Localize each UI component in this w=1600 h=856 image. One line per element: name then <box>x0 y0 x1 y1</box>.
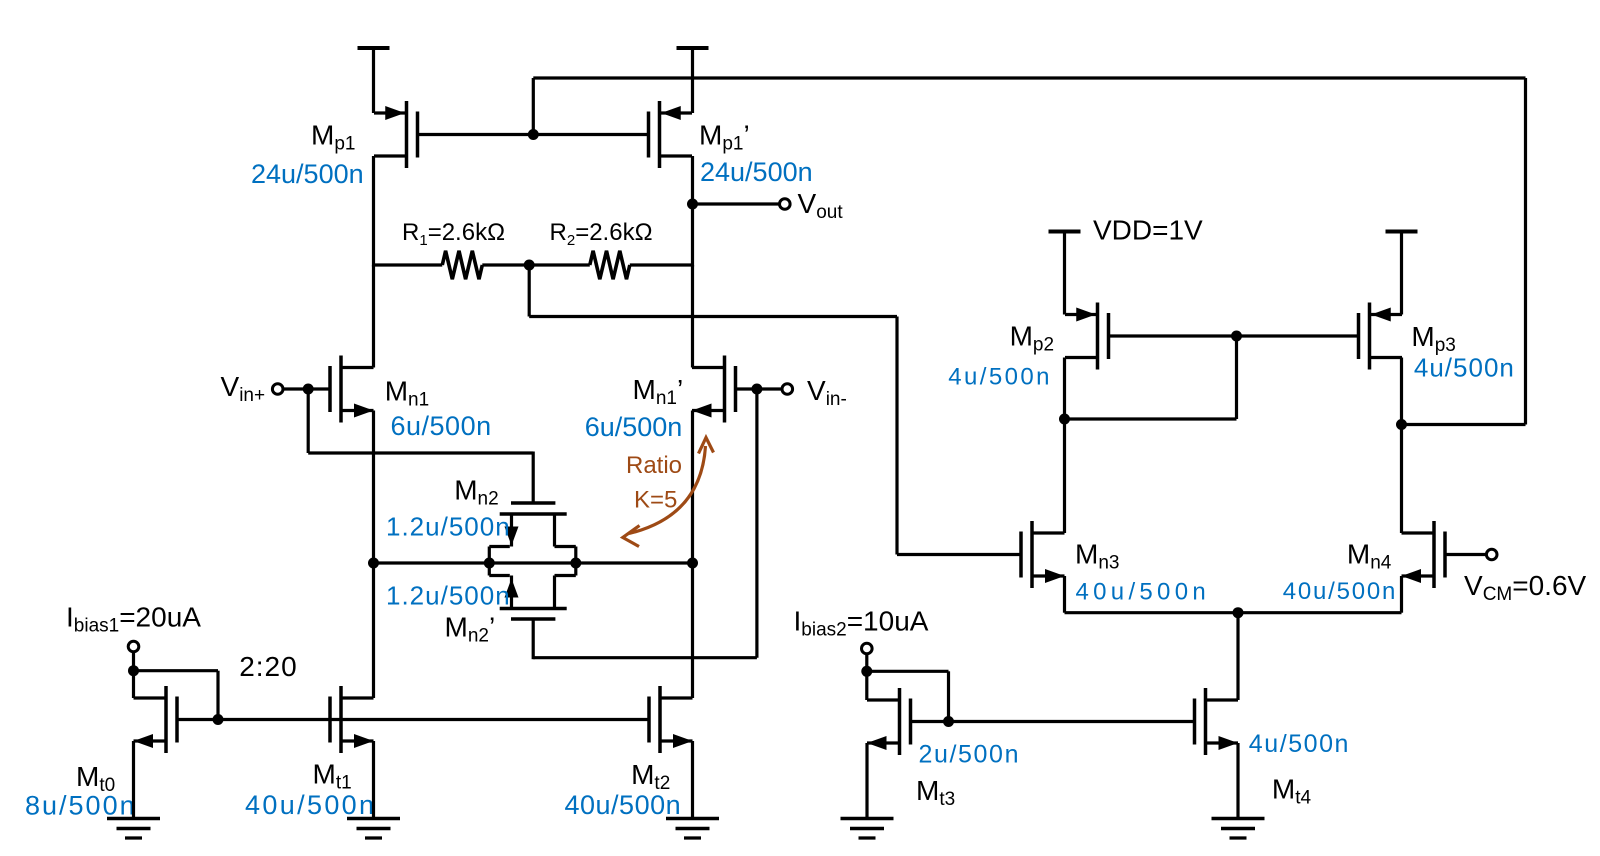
svg-text:4u/500n: 4u/500n <box>948 364 1052 391</box>
transistor Mn4 (NMOS CMFB reference, gate right) <box>1402 521 1446 588</box>
svg-text:24u/500n: 24u/500n <box>251 159 364 189</box>
svg-text:6u/500n: 6u/500n <box>391 411 492 441</box>
transistor Mt1 (NMOS tail, gate left) <box>330 686 374 753</box>
label R2 value <box>550 219 653 249</box>
label VCM=0.6V <box>1464 570 1587 605</box>
label Mn3 <box>1075 538 1119 573</box>
svg-text:1.2u/500n: 1.2u/500n <box>386 512 511 542</box>
label Mt1 size 40u/500n <box>245 790 376 820</box>
node Mp3 drain junction dot <box>1396 419 1407 430</box>
label Mt0 <box>76 761 115 796</box>
wire Mt0 gate feed drop <box>216 671 219 720</box>
wire Mp1p drain column to Vout and resistor row <box>691 156 694 267</box>
svg-text:40u/500n: 40u/500n <box>245 790 376 820</box>
label Mt4 <box>1272 774 1312 809</box>
label Mt4 size 4u/500n <box>1249 730 1350 758</box>
power VDD symbol above Mp2 <box>1049 232 1081 315</box>
wire gate-bias bottom run to Mp3 drain <box>1402 423 1526 426</box>
power VDD symbol above Mp1 <box>358 48 390 113</box>
label Mn4 size 40u/500n <box>1283 578 1398 605</box>
wire gate-bias right drop <box>1524 78 1527 425</box>
node Vout junction dot <box>687 199 698 210</box>
node Ibias1 junction dot <box>128 665 139 676</box>
label Mp1 size 24u/500n <box>251 159 364 189</box>
wire Vin+ lead <box>283 387 330 390</box>
wire Mt1 source to ground <box>372 741 375 819</box>
label Mp3 size 4u/500n <box>1414 352 1515 382</box>
label Vin- <box>807 375 847 410</box>
label Ibias1 <box>66 602 201 637</box>
wire Vout stub <box>693 202 780 205</box>
wire Vin+ gate drop <box>307 389 310 453</box>
svg-text:6u/500n: 6u/500n <box>585 412 683 442</box>
node left branch source dot <box>368 558 379 569</box>
label Mt3 <box>916 775 955 810</box>
wire Mp2 drain column <box>1063 358 1066 534</box>
terminal Vin+ open circle <box>272 384 283 395</box>
svg-text:K=5: K=5 <box>634 487 677 514</box>
svg-text:VCM=0.6V: VCM=0.6V <box>1464 570 1587 605</box>
svg-text:40u/500n: 40u/500n <box>565 790 682 820</box>
label Mp2 <box>1010 321 1054 356</box>
node CMFB tail dot <box>1233 607 1244 618</box>
wire Mn4 gate lead <box>1447 553 1487 556</box>
wire CM-sense drop from resistor midpoint <box>528 265 531 317</box>
label Mn4 <box>1347 539 1392 574</box>
label Mt0 size 8u/500n <box>25 791 137 821</box>
wire Mt4 source to ground <box>1236 743 1239 819</box>
transistor Mp1-prime (PMOS current source, gate left) <box>649 101 693 168</box>
node Mt3 gate junction dot <box>943 716 954 727</box>
svg-text:R2=2.6kΩ: R2=2.6kΩ <box>550 219 653 249</box>
wire Vin- gate drop <box>755 389 758 658</box>
label Mp2 size 4u/500n <box>948 364 1052 391</box>
label Vin+ <box>221 371 266 406</box>
node Vin+ junction dot <box>303 384 314 395</box>
wire Mt3 source to ground <box>865 743 868 819</box>
svg-text:1.2u/500n: 1.2u/500n <box>386 581 511 611</box>
label Mp3 <box>1411 321 1455 356</box>
transistor Mt4 (NMOS tail, gate left) <box>1195 688 1239 755</box>
ground below Mt3 <box>841 819 894 839</box>
wire resistor row left segment <box>374 263 443 266</box>
label 2:20 mirror ratio <box>239 651 298 682</box>
annotation ratio curved arrow <box>623 438 714 547</box>
svg-text:4u/500n: 4u/500n <box>1249 730 1350 758</box>
wire gate bus Mt0-Mt1-Mt2 <box>177 718 649 721</box>
node resistor midpoint dot <box>524 260 535 271</box>
label Mn1-prime <box>633 374 684 409</box>
transistor Mn2 (degeneration NMOS, rotated, gate up) <box>489 503 576 563</box>
label Mt1 <box>313 759 352 794</box>
transistor Mn2-prime (degeneration NMOS, rotated, gate down) <box>489 563 576 619</box>
wire Ibias2 drop <box>865 654 868 700</box>
node Mn2 left dot <box>484 558 495 569</box>
label Mn2-prime size 1.2u/500n <box>386 581 511 611</box>
label Ibias2 <box>794 606 929 641</box>
node Mt0 gate junction dot <box>213 714 224 725</box>
resistor R2 zigzag <box>590 251 630 279</box>
transistor Mt0 (NMOS diode, gate right) <box>134 686 178 753</box>
annotation K=5 text <box>634 487 677 514</box>
wire CM-sense to Mn3 gate <box>897 553 1021 556</box>
transistor Mt3 (NMOS diode, gate right) <box>867 688 911 755</box>
wire Ibias1 to Mt0 gate (top run) <box>134 669 219 672</box>
label Mn1 size 6u/500n <box>391 411 492 441</box>
label Vout <box>798 188 844 223</box>
label Mn2 <box>454 475 498 510</box>
wire Mp2 diode drop <box>1235 336 1238 419</box>
wire Mt0 source to ground <box>132 741 135 819</box>
transistor Mn1-prime (NMOS input, gate right) <box>692 356 736 423</box>
node Mn2 right dot <box>570 558 581 569</box>
ground below Mt1 <box>347 819 400 839</box>
power VDD symbol above Mp3 <box>1386 232 1418 315</box>
svg-text:2:20: 2:20 <box>239 651 298 682</box>
wire Ibias2 to Mt3 gate (top run) <box>867 670 949 673</box>
transistor Mt2 (NMOS tail, gate left) <box>649 686 693 753</box>
label Mt2 <box>631 759 670 794</box>
ground below Mt0 <box>107 819 160 839</box>
label Mp1-prime <box>699 120 750 155</box>
wire tail drop to Mt4 <box>1236 613 1239 700</box>
label Mp1 <box>311 120 355 155</box>
transistor Mp3 (PMOS, gate left) <box>1359 303 1403 370</box>
label R1 value <box>402 219 505 249</box>
svg-text:24u/500n: 24u/500n <box>700 157 813 187</box>
transistor Mp2 (PMOS diode, gate right) <box>1065 303 1109 370</box>
svg-text:R1=2.6kΩ: R1=2.6kΩ <box>402 219 505 249</box>
label Mt3 size 2u/500n <box>919 741 1021 769</box>
terminal Ibias2 open circle <box>862 643 873 654</box>
terminal Vout open circle <box>780 199 791 210</box>
wire CMFB tail line <box>1065 611 1402 614</box>
svg-text:4u/500n: 4u/500n <box>1414 352 1515 382</box>
wire Mt3 gate feed drop <box>947 671 950 721</box>
wire Mn2p gate feed horizontal <box>533 656 757 659</box>
wire Mn2 gate feed horizontal <box>308 451 533 454</box>
node right branch source dot <box>687 558 698 569</box>
wire Mn2p gate stem <box>532 619 535 659</box>
node Mp2 drain junction dot <box>1059 414 1070 425</box>
svg-text:2u/500n: 2u/500n <box>919 741 1021 769</box>
node gate-bias junction dot at Mp1 gates <box>528 129 539 140</box>
wire right branch to Mn1p drain <box>691 265 694 368</box>
transistor Mn1 (NMOS input, gate left) <box>330 356 374 423</box>
wire source node line <box>374 561 693 564</box>
wire CM-sense horizontal run <box>529 315 897 318</box>
label Mn2 size 1.2u/500n <box>386 512 511 542</box>
wire CM-sense right drop <box>895 317 898 555</box>
wire Vin- lead <box>737 387 782 390</box>
wire Mn2 gate stem <box>532 452 535 504</box>
wire Mp3 drain column <box>1400 358 1403 534</box>
power VDD symbol above Mp1-prime <box>677 48 709 113</box>
svg-text:40u/500n: 40u/500n <box>1283 578 1398 605</box>
wire left branch Mp1 drain to Mn1 drain <box>372 265 375 368</box>
transistor Mp1 (PMOS current source, gate right) <box>374 101 418 168</box>
svg-text:VDD=1V: VDD=1V <box>1093 214 1203 245</box>
svg-text:8u/500n: 8u/500n <box>25 791 137 821</box>
ground below Mt4 <box>1212 819 1265 839</box>
wire Mp1 drain column to resistor row <box>372 156 375 267</box>
annotation Ratio text <box>626 452 682 479</box>
label Mn1 <box>385 375 429 410</box>
wire Mt2 source to ground <box>691 741 694 819</box>
node Ibias2 junction dot <box>861 666 872 677</box>
wire gate-bias riser <box>532 78 535 136</box>
label Mn1-prime size 6u/500n <box>585 412 683 442</box>
wire resistor row R1-to-midpoint <box>482 263 590 266</box>
svg-text:40u/500n: 40u/500n <box>1076 579 1211 606</box>
resistor R1 zigzag <box>442 251 482 279</box>
wire Mp1-Mp1p gate lead <box>418 133 649 136</box>
wire Mn1 source to node line and Mt1 drain <box>372 411 375 699</box>
wire Mp2 diode run to drain <box>1065 417 1237 420</box>
node Mp2 gate junction dot <box>1231 331 1242 342</box>
wire gate-bias top rail <box>533 76 1525 79</box>
wire gate bus Mt3-Mt4 <box>911 720 1195 723</box>
wire Mn4 source drop <box>1400 576 1403 613</box>
label VDD=1V <box>1093 214 1203 245</box>
svg-text:Ratio: Ratio <box>626 452 682 479</box>
terminal Ibias1 open circle <box>128 641 139 652</box>
label Mn2-prime <box>445 612 496 647</box>
terminal VCM open circle <box>1486 549 1497 560</box>
label Mn3 size 40u/500n <box>1076 579 1211 606</box>
wire Mn3 source drop <box>1063 576 1066 613</box>
ground below Mt2 <box>666 819 719 839</box>
label Mt2 size 40u/500n <box>565 790 682 820</box>
wire Mp2-Mp3 gate lead <box>1109 334 1359 337</box>
wire Mn1p source to node line and Mt2 drain <box>691 411 694 699</box>
node Vin- junction dot <box>751 384 762 395</box>
terminal Vin- open circle <box>782 384 793 395</box>
transistor Mn3 (NMOS CMFB sense, gate left) <box>1021 521 1065 588</box>
wire resistor row right segment <box>630 263 693 266</box>
label Mp1-prime size 24u/500n <box>700 157 813 187</box>
wire Ibias1 drop <box>132 652 135 698</box>
